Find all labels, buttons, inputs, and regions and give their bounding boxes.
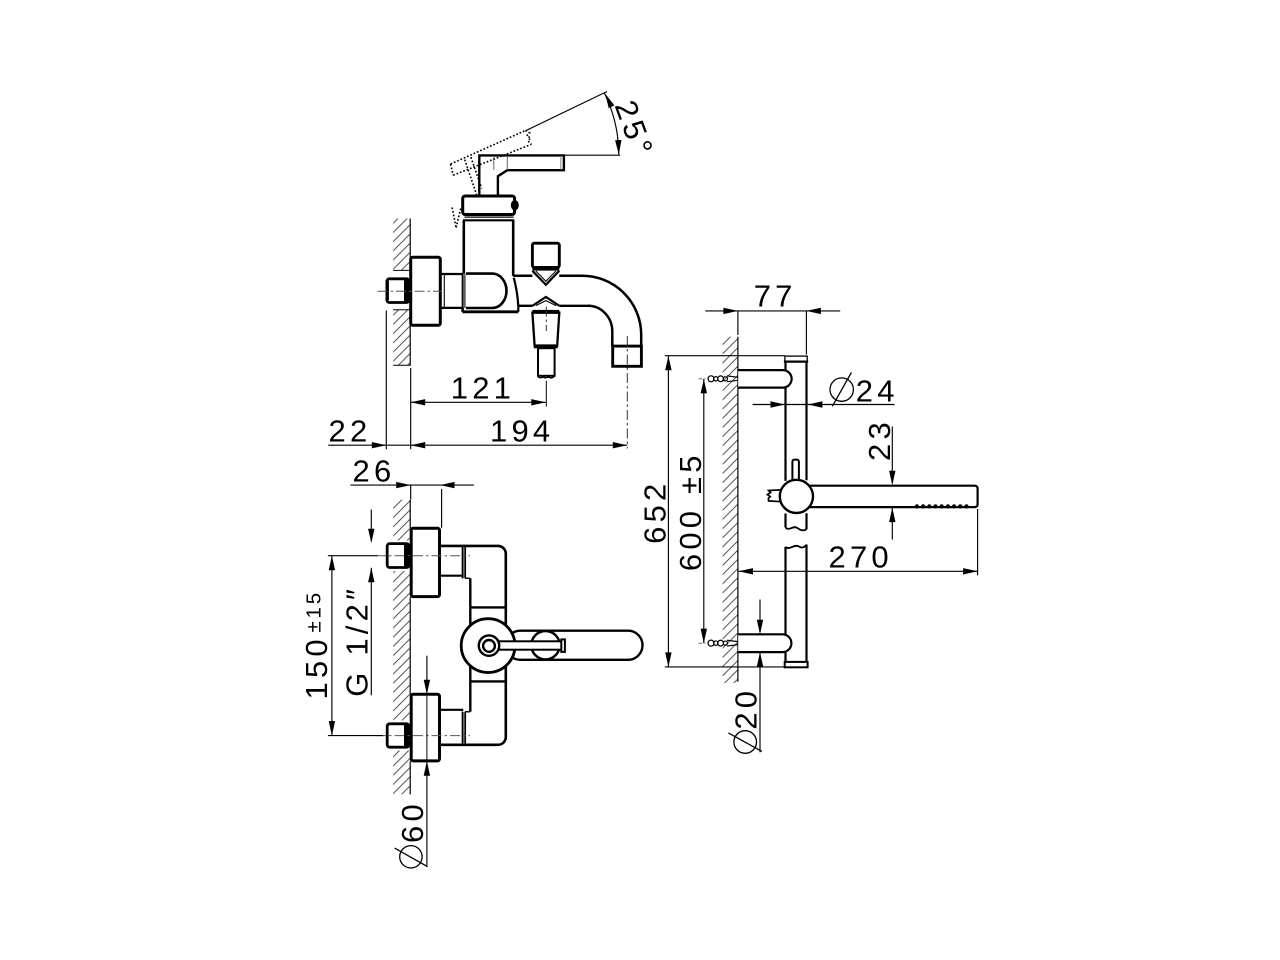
svg-text:270: 270 (829, 539, 893, 574)
svg-text:20: 20 (729, 687, 764, 730)
svg-text:26: 26 (353, 453, 396, 488)
svg-text:121: 121 (451, 371, 515, 406)
svg-text:23: 23 (862, 418, 897, 461)
svg-text:G 1/2″: G 1/2″ (340, 585, 375, 697)
svg-text:600 ±5: 600 ±5 (673, 451, 708, 571)
svg-text:194: 194 (490, 414, 554, 449)
svg-text:77: 77 (754, 279, 797, 314)
svg-text:24: 24 (856, 373, 899, 408)
svg-text:±15: ±15 (302, 590, 325, 632)
svg-text:22: 22 (329, 414, 372, 449)
svg-text:60: 60 (395, 800, 430, 843)
svg-text:652: 652 (637, 480, 672, 544)
svg-text:150: 150 (299, 635, 334, 699)
svg-text:25°: 25° (608, 96, 661, 164)
